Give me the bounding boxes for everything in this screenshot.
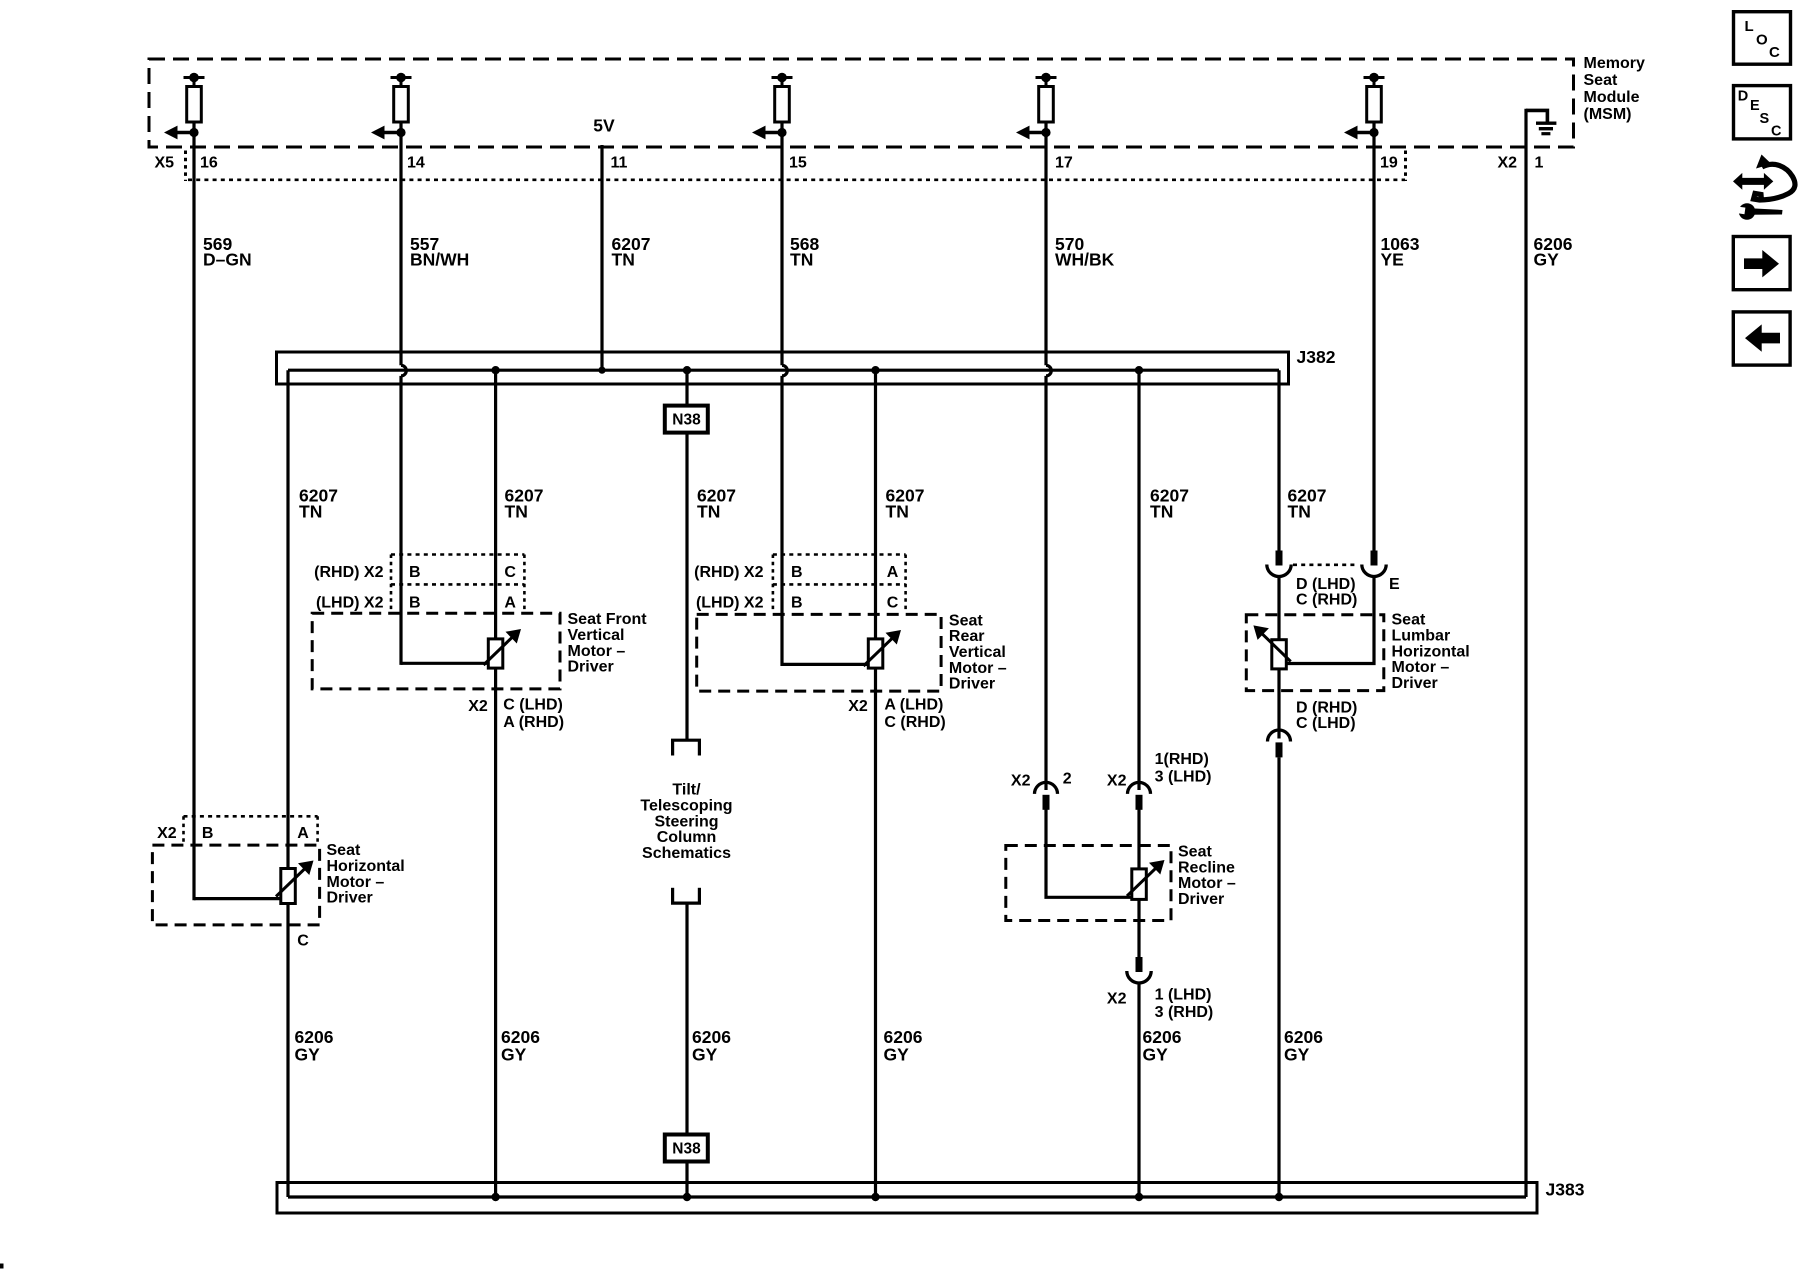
connector pin 16 <box>200 155 218 172</box>
svg-text:J383: J383 <box>1546 1179 1585 1199</box>
svg-text:Motor –: Motor – <box>1392 659 1450 676</box>
svg-text:(LHD) X2: (LHD) X2 <box>696 595 764 612</box>
wire 570 below connector down and right to recline motor <box>1046 809 1133 897</box>
connector X5 separator <box>184 151 187 182</box>
svg-text:5V: 5V <box>593 116 615 136</box>
svg-text:Horizontal: Horizontal <box>327 858 405 875</box>
wire label 6206 GY <box>1534 234 1573 270</box>
svg-text:GY: GY <box>884 1045 910 1065</box>
motor M3 Seat Recline (rect + NE arrow) <box>1127 860 1165 899</box>
wire label 6207 TN <box>886 486 925 522</box>
svg-text:Seat Front: Seat Front <box>568 611 648 628</box>
svg-text:C (LHD): C (LHD) <box>503 697 563 714</box>
svg-text:D (LHD): D (LHD) <box>1296 576 1356 593</box>
connector pin 17 <box>1055 155 1073 172</box>
svg-text:C (RHD): C (RHD) <box>884 714 945 731</box>
svg-text:Driver: Driver <box>327 890 373 907</box>
connector pin 19 separator <box>1404 151 1407 182</box>
inline connector below lumbar motor <box>1268 730 1291 757</box>
svg-text:Driver: Driver <box>568 659 614 676</box>
wire label 6207 TN <box>299 486 338 522</box>
inline connector on 570 wire (X2 pin 2) <box>1035 782 1058 809</box>
Seat Recline Motor label <box>1178 844 1236 908</box>
forward arrow icon box <box>1733 237 1790 290</box>
Seat Recline Motor dashed box <box>1006 846 1171 921</box>
svg-text:B: B <box>409 564 421 581</box>
front motor connector row2 pins B A <box>409 595 516 612</box>
MSM output driver 2 (pin 14) <box>371 73 412 140</box>
svg-text:Seat: Seat <box>327 842 361 859</box>
horizontal motor connector pins B A <box>202 825 309 842</box>
wire 6207 TN from pin 11 (5V) to bus <box>600 145 603 370</box>
svg-text:(MSM): (MSM) <box>1584 106 1632 123</box>
wire label 569 D-GN <box>203 234 252 270</box>
svg-text:Seat: Seat <box>1392 612 1426 629</box>
inline connector below recline motor (X2 1(LHD)/3(RHD)) <box>1127 957 1151 983</box>
rear motor lower connector label X2 A (LHD) / C (RHD) <box>848 697 946 732</box>
svg-text:L: L <box>1745 18 1754 35</box>
MSM output driver 3 (pin 15) <box>752 73 793 140</box>
wire 570 WH/BK from pin 17 down to bus hop <box>1044 133 1047 366</box>
svg-text:(RHD) X2: (RHD) X2 <box>314 564 383 581</box>
svg-text:C: C <box>297 933 309 950</box>
svg-text:X2: X2 <box>1011 773 1031 790</box>
svg-text:A: A <box>504 595 516 612</box>
Seat Horizontal Motor dashed box <box>152 845 319 925</box>
wire label 6207 TN <box>1150 486 1189 522</box>
J382 inner bus line <box>288 369 1279 372</box>
wire 6207 TN right drop (J382 to lumbar motor) <box>1277 370 1280 551</box>
wire label 557 BN/WH <box>410 234 469 270</box>
J383 junction dot lumbar return <box>1275 1193 1283 1201</box>
wire 6207 TN from lower flag through N38 to J383 <box>685 903 688 1197</box>
motor M5 Seat Lumbar Horizontal (rect + NW arrow) <box>1253 625 1290 669</box>
svg-text:2: 2 <box>1063 771 1072 788</box>
inline connector on recline drop (X2) <box>1128 782 1151 809</box>
connector pin 11 <box>611 155 628 172</box>
wire label 6206 GY <box>295 1027 334 1065</box>
wire 6206 GY from recline connector to J383 <box>1137 983 1140 1197</box>
wire label 570 WH/BK <box>1055 234 1115 270</box>
wire 570 WH/BK below hop to recline connector <box>1044 376 1047 790</box>
hop of 557 wire over J382 inner line <box>401 365 406 376</box>
wire 6207 TN left drop (J382 to horizontal motor to J383) <box>286 370 289 1197</box>
wire 6207 TN drop to front vertical motor <box>494 370 497 1197</box>
wire 557 turn into front motor <box>401 662 489 665</box>
svg-text:C: C <box>1769 44 1780 61</box>
connector pin 14 <box>407 155 425 172</box>
wire label 1063 YE <box>1381 234 1420 270</box>
svg-text:O: O <box>1756 32 1768 49</box>
connector X5 dotted boundary line <box>188 179 1405 182</box>
svg-text:TN: TN <box>612 250 635 270</box>
rear motor connector label (RHD) X2 <box>694 564 763 581</box>
svg-text:Seat: Seat <box>949 612 983 629</box>
svg-text:B: B <box>791 564 803 581</box>
svg-text:TN: TN <box>697 502 720 522</box>
svg-text:D: D <box>1738 88 1748 104</box>
svg-text:3 (RHD): 3 (RHD) <box>1155 1004 1214 1021</box>
svg-text:Tilt/: Tilt/ <box>672 782 701 799</box>
Seat Lumbar Horizontal Motor label <box>1392 612 1470 692</box>
svg-text:19: 19 <box>1380 155 1398 172</box>
svg-text:S: S <box>1760 111 1770 127</box>
svg-text:C (LHD): C (LHD) <box>1296 715 1356 732</box>
svg-text:TN: TN <box>790 250 813 270</box>
rear motor connector dotted rows (RHD/LHD) <box>773 555 906 612</box>
wire label 6207 TN <box>697 486 736 522</box>
J382 label <box>1297 347 1336 367</box>
lumbar connector label D (LHD) / C (RHD) <box>1296 576 1357 609</box>
J382 junction dot for 5V feed <box>598 367 605 374</box>
wire 6207 TN drop to rear vertical motor <box>874 370 877 1197</box>
horizontal motor lower pin label C <box>297 933 309 950</box>
svg-text:GY: GY <box>692 1045 718 1065</box>
Seat Front Vertical Motor dashed box <box>312 613 560 689</box>
connector X2 pin 1 <box>1535 155 1544 172</box>
svg-text:1 (LHD): 1 (LHD) <box>1155 987 1212 1004</box>
wire label 6206 GY <box>692 1027 731 1065</box>
motor M2 Seat Rear Vertical (rect + NE arrow) <box>864 630 902 668</box>
recline connector X2 1(RHD)/3(LHD) labels <box>1107 751 1212 790</box>
svg-text:Memory: Memory <box>1584 55 1645 72</box>
schematic navigation squiggle icon (double arrow) <box>1733 173 1773 190</box>
svg-text:Rear: Rear <box>949 628 985 645</box>
DESC icon box <box>1734 86 1791 140</box>
svg-text:Steering: Steering <box>654 813 718 830</box>
svg-text:X2: X2 <box>157 825 177 842</box>
connector X5 label <box>155 155 175 172</box>
front motor connector label (LHD) X2 <box>316 595 384 612</box>
splice pack J383 outer box <box>277 1183 1537 1214</box>
front motor connector row1 pins B C <box>409 564 516 581</box>
svg-text:Motor –: Motor – <box>327 874 385 891</box>
wire label 6206 GY <box>1284 1027 1323 1065</box>
MSM output driver 1 (pin 16) <box>164 73 205 140</box>
wire 557 BN/WH from pin 14 down to bus hop <box>399 133 402 366</box>
svg-text:Horizontal: Horizontal <box>1392 643 1470 660</box>
svg-text:Schematics: Schematics <box>642 845 731 862</box>
wire 568 turn into rear motor <box>782 663 870 666</box>
svg-text:Driver: Driver <box>1178 891 1224 908</box>
J383 junction dot recline return <box>1135 1193 1143 1201</box>
J383 junction dot front motor return <box>491 1193 499 1201</box>
LOC icon box <box>1734 12 1791 64</box>
inline connector pin E on right lumbar wire <box>1362 551 1386 577</box>
Seat Front Vertical Motor label <box>568 611 648 675</box>
wire 6206 GY from X2 pin 1 down to J383 <box>1524 109 1527 1197</box>
svg-text:Column: Column <box>657 829 717 846</box>
wire 557 BN/WH below hop to front motor <box>399 376 402 665</box>
svg-text:A (RHD): A (RHD) <box>503 714 564 731</box>
wire label 6206 GY <box>501 1027 540 1065</box>
J383 label <box>1546 1179 1585 1199</box>
J382 junction dot for recline drop <box>1135 366 1143 374</box>
wire label 6207 TN <box>505 486 544 522</box>
svg-text:GY: GY <box>1143 1045 1169 1065</box>
svg-text:X2: X2 <box>848 698 868 715</box>
wire 6206 GY from lumbar connector to J383 <box>1277 757 1280 1197</box>
wire 6207 TN drop to recline motor <box>1137 370 1140 790</box>
connector pin 15 <box>789 155 807 172</box>
svg-text:Lumbar: Lumbar <box>1392 628 1451 645</box>
front motor connector dotted rows (RHD/LHD) <box>391 555 524 612</box>
svg-text:Motor –: Motor – <box>1178 875 1236 892</box>
schematic navigation squiggle icon (loop stroke with arrowhead) <box>1754 155 1795 202</box>
wire 6207 TN drop to N38 / tilt flag <box>685 370 688 740</box>
svg-text:E: E <box>1389 576 1400 593</box>
wire 569 D-GN from pin 16 down <box>192 133 195 901</box>
wire 568 TN below hop to rear motor <box>780 376 783 666</box>
svg-text:B: B <box>409 595 421 612</box>
wire lumbar right below connector (E) down and left to motor <box>1287 577 1375 664</box>
svg-text:Vertical: Vertical <box>949 644 1006 661</box>
wire label 6207 TN <box>1288 486 1327 522</box>
lumbar connector label E <box>1389 576 1400 593</box>
Seat Rear Vertical Motor dashed box <box>697 614 941 691</box>
svg-text:C (RHD): C (RHD) <box>1296 592 1357 609</box>
J383 junction dot N38 return <box>683 1193 691 1201</box>
J383 inner bus line <box>288 1195 1526 1198</box>
svg-text:GY: GY <box>295 1045 321 1065</box>
ground symbol inside MSM <box>1526 110 1556 133</box>
svg-text:Seat: Seat <box>1178 844 1212 861</box>
connector pin 19 <box>1380 155 1398 172</box>
off-page flag (bottom) from steering column schematics <box>671 888 701 903</box>
svg-text:Seat: Seat <box>1584 72 1618 89</box>
svg-text:D (RHD): D (RHD) <box>1296 699 1357 716</box>
svg-text:BN/WH: BN/WH <box>410 250 469 270</box>
svg-text:16: 16 <box>200 155 218 172</box>
svg-text:1(RHD): 1(RHD) <box>1155 751 1209 768</box>
svg-text:X2: X2 <box>1107 991 1127 1008</box>
off-page flag (top) to steering column schematics <box>671 740 701 755</box>
wire 568 TN from pin 15 down to bus hop <box>780 133 783 366</box>
svg-text:GY: GY <box>1284 1045 1310 1065</box>
Memory Seat Module (MSM) dashed box <box>149 59 1574 147</box>
svg-text:X2: X2 <box>1107 773 1127 790</box>
svg-text:TN: TN <box>1150 502 1173 522</box>
MSM output driver 4 (pin 17) <box>1016 73 1057 140</box>
hop of 568 wire over J382 inner line <box>782 365 787 376</box>
svg-text:TN: TN <box>1288 502 1311 522</box>
rear motor connector row1 pins B A <box>791 564 899 581</box>
svg-text:WH/BK: WH/BK <box>1055 250 1115 270</box>
svg-text:X2: X2 <box>1498 155 1518 172</box>
wire label 6207 TN <box>612 234 651 270</box>
svg-text:B: B <box>791 595 803 612</box>
svg-text:C: C <box>504 564 516 581</box>
svg-text:N38: N38 <box>672 412 701 429</box>
Seat Rear Vertical Motor label <box>949 612 1007 692</box>
recline connector X2 2 labels <box>1011 771 1072 790</box>
stray scan speck bottom-left <box>0 1264 4 1269</box>
motor M1 Seat Front Vertical (rect + NE arrow) <box>484 629 522 668</box>
lumbar lower connector label D (RHD) / C (LHD) <box>1296 699 1357 732</box>
svg-text:TN: TN <box>299 502 322 522</box>
wire 1063 YE from pin 19 down to lumbar connector <box>1372 133 1375 552</box>
svg-text:Driver: Driver <box>949 676 995 693</box>
J382 junction dot for 6207 TN drop 1 <box>491 366 499 374</box>
svg-text:Telescoping: Telescoping <box>640 797 732 814</box>
wire label 568 TN <box>790 234 819 270</box>
svg-text:1: 1 <box>1535 155 1544 172</box>
svg-text:GY: GY <box>501 1045 527 1065</box>
svg-text:17: 17 <box>1055 155 1073 172</box>
svg-text:11: 11 <box>611 155 628 172</box>
svg-text:N38: N38 <box>672 1141 701 1158</box>
horizontal motor connector label X2 <box>157 825 177 842</box>
svg-text:Driver: Driver <box>1392 675 1438 692</box>
svg-text:14: 14 <box>407 155 425 172</box>
svg-text:C: C <box>1771 124 1782 140</box>
MSM output driver 5 (pin 19) <box>1344 73 1385 140</box>
svg-text:X5: X5 <box>155 155 175 172</box>
svg-text:D–GN: D–GN <box>203 250 252 270</box>
rear motor connector label (LHD) X2 <box>696 595 764 612</box>
svg-text:X2: X2 <box>468 698 488 715</box>
front motor lower connector label X2 C (LHD) / A (RHD) <box>468 697 564 732</box>
MSM module name label <box>1584 55 1645 123</box>
svg-text:GY: GY <box>1534 250 1560 270</box>
svg-text:A: A <box>887 564 899 581</box>
svg-text:Motor –: Motor – <box>568 643 626 660</box>
recline lower connector labels <box>1107 987 1213 1022</box>
svg-text:15: 15 <box>789 155 807 172</box>
svg-text:Vertical: Vertical <box>568 627 625 644</box>
J382 junction dot for N38 drop <box>683 366 691 374</box>
svg-text:TN: TN <box>505 502 528 522</box>
motor M4 Seat Horizontal (rect + NE arrow) <box>276 861 314 904</box>
svg-text:(RHD) X2: (RHD) X2 <box>694 564 763 581</box>
schematic navigation squiggle icon (wrench) <box>1734 203 1783 220</box>
Seat Lumbar Horizontal Motor dashed box <box>1246 615 1384 691</box>
J383 junction dot rear motor return <box>871 1193 879 1201</box>
svg-text:Module: Module <box>1584 89 1640 106</box>
rear motor connector row2 pins B C <box>791 595 899 612</box>
Seat Horizontal Motor label <box>327 842 405 906</box>
splice pack J382 outer box <box>277 352 1289 384</box>
svg-text:A: A <box>297 825 309 842</box>
svg-text:B: B <box>202 825 214 842</box>
svg-text:YE: YE <box>1381 250 1404 270</box>
wire lumbar left below connector <box>1277 577 1280 739</box>
inline connector pin D(LHD)/C(RHD) on left lumbar wire <box>1267 551 1291 577</box>
splice N38 (lower) <box>665 1135 708 1162</box>
wire recline below connector through motor <box>1137 809 1140 958</box>
wire 569 turn into horizontal motor <box>194 897 282 900</box>
svg-text:(LHD) X2: (LHD) X2 <box>316 595 384 612</box>
Tilt/Telescoping Steering Column Schematics note <box>640 782 732 863</box>
wire label 6206 GY <box>1143 1027 1182 1065</box>
svg-text:Motor –: Motor – <box>949 660 1007 677</box>
splice N38 (upper) <box>665 406 708 433</box>
back arrow icon box <box>1733 312 1790 365</box>
svg-text:C: C <box>887 595 899 612</box>
svg-text:E: E <box>1750 98 1760 114</box>
J382 junction dot for rear motor drop <box>871 366 879 374</box>
front motor connector label (RHD) X2 <box>314 564 383 581</box>
svg-text:J382: J382 <box>1297 347 1336 367</box>
svg-text:A (LHD): A (LHD) <box>884 697 943 714</box>
horizontal motor connector dotted row <box>184 816 318 845</box>
5V supply label <box>593 116 615 136</box>
svg-text:Recline: Recline <box>1178 859 1235 876</box>
svg-text:3 (LHD): 3 (LHD) <box>1155 769 1212 786</box>
dotted line between lumbar connectors <box>1293 563 1358 566</box>
connector X2 label <box>1498 155 1518 172</box>
svg-text:TN: TN <box>886 502 909 522</box>
hop of 570 wire over J382 inner line <box>1046 365 1051 376</box>
wire label 6206 GY <box>884 1027 923 1065</box>
